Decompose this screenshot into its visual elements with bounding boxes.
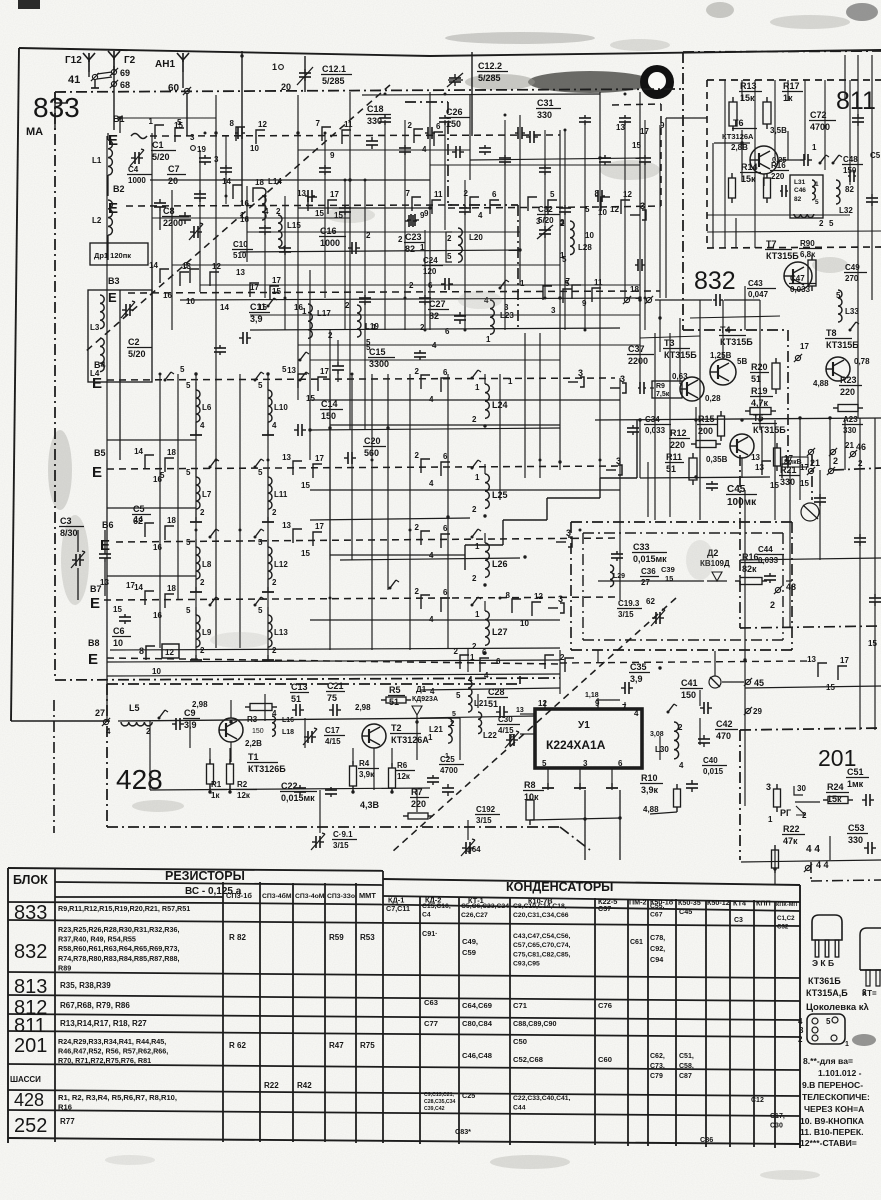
svg-text:L15: L15 <box>287 221 301 230</box>
svg-text:С35: С35 <box>630 662 647 672</box>
svg-text:15: 15 <box>301 549 310 558</box>
svg-text:R23,R25,R26,R28,R30,R31,R32,R3: R23,R25,R26,R28,R30,R31,R32,R36, <box>58 925 179 934</box>
svg-text:13: 13 <box>282 453 291 462</box>
svg-text:330: 330 <box>780 477 795 487</box>
svg-text:КТ4: КТ4 <box>733 898 746 907</box>
svg-text:С51: С51 <box>847 767 864 777</box>
svg-text:12: 12 <box>534 592 543 601</box>
svg-text:С7,С11: С7,С11 <box>386 904 410 913</box>
svg-text:С55,: С55, <box>650 903 664 910</box>
svg-text:3: 3 <box>583 759 588 768</box>
svg-text:С33: С33 <box>633 542 650 552</box>
svg-text:С3: С3 <box>60 516 72 526</box>
svg-text:3: 3 <box>566 528 571 538</box>
svg-text:R74,R78,R80,R83,R84,R85,R87,R8: R74,R78,R80,R83,R84,R85,R87,R88, <box>58 954 179 963</box>
svg-text:6: 6 <box>618 759 623 768</box>
svg-text:3,08: 3,08 <box>650 731 664 738</box>
svg-text:3: 3 <box>190 133 195 142</box>
svg-text:L6: L6 <box>202 403 212 412</box>
svg-text:2: 2 <box>200 508 205 517</box>
svg-text:3: 3 <box>766 782 771 792</box>
svg-text:К50-35: К50-35 <box>678 898 701 907</box>
svg-text:С53: С53 <box>848 823 865 833</box>
svg-text:R8: R8 <box>524 780 536 790</box>
svg-text:Т7: Т7 <box>766 239 777 249</box>
svg-text:0,35В: 0,35В <box>706 455 728 464</box>
svg-text:КТ3126А: КТ3126А <box>391 735 429 745</box>
svg-text:150: 150 <box>681 690 696 700</box>
svg-text:2: 2 <box>200 646 205 655</box>
svg-text:СП3-4бМ: СП3-4бМ <box>262 892 292 900</box>
svg-text:17: 17 <box>840 656 849 665</box>
svg-text:2200: 2200 <box>163 218 183 228</box>
svg-text:10: 10 <box>585 231 594 240</box>
svg-text:С47: С47 <box>790 274 805 283</box>
svg-text:17: 17 <box>784 454 793 463</box>
svg-text:С25: С25 <box>462 1091 475 1100</box>
svg-text:3: 3 <box>558 594 563 604</box>
svg-text:5: 5 <box>829 219 834 228</box>
svg-text:В8: В8 <box>88 638 100 648</box>
svg-text:1: 1 <box>475 473 480 482</box>
svg-text:С39: С39 <box>661 565 675 574</box>
svg-text:2,2В: 2,2В <box>245 739 262 748</box>
svg-text:11. В10-ПЕРЕК.: 11. В10-ПЕРЕК. <box>800 1127 864 1137</box>
svg-text:R20: R20 <box>751 362 768 372</box>
svg-text:С46: С46 <box>794 187 806 194</box>
svg-text:10: 10 <box>113 638 123 648</box>
svg-text:1: 1 <box>508 377 513 386</box>
svg-text:811: 811 <box>14 1015 46 1037</box>
svg-text:С32: С32 <box>777 924 789 931</box>
svg-text:220: 220 <box>840 387 855 397</box>
svg-text:8: 8 <box>139 646 144 656</box>
svg-text:R70, R71,R72,R75,R76, R81: R70, R71,R72,R75,R76, R81 <box>58 1056 151 1065</box>
svg-text:С26: С26 <box>446 107 463 117</box>
svg-text:R4: R4 <box>359 759 370 768</box>
svg-text:С12.2: С12.2 <box>478 61 502 71</box>
svg-text:R89: R89 <box>58 963 71 972</box>
svg-text:2: 2 <box>798 1035 803 1044</box>
svg-text:Т8: Т8 <box>826 328 837 338</box>
svg-text:20: 20 <box>281 82 291 92</box>
svg-text:252: 252 <box>14 1115 47 1137</box>
svg-text:19: 19 <box>197 145 206 154</box>
svg-text:R17: R17 <box>783 81 800 91</box>
svg-text:Т2: Т2 <box>391 723 402 733</box>
svg-text:48: 48 <box>786 582 796 592</box>
svg-text:С15: С15 <box>369 347 386 357</box>
svg-text:14: 14 <box>149 261 158 270</box>
svg-text:9: 9 <box>660 121 665 130</box>
svg-text:L21: L21 <box>429 725 443 734</box>
svg-text:1,25В: 1,25В <box>710 351 732 360</box>
svg-text:С17: С17 <box>325 726 340 735</box>
svg-text:R22: R22 <box>783 824 800 834</box>
svg-text:6: 6 <box>436 122 441 131</box>
svg-text:С72: С72 <box>810 110 827 120</box>
svg-text:5: 5 <box>542 759 547 768</box>
svg-text:6: 6 <box>482 648 487 657</box>
svg-text:С52,С68: С52,С68 <box>513 1055 543 1064</box>
svg-text:12: 12 <box>623 190 632 199</box>
svg-text:330: 330 <box>848 835 863 845</box>
svg-text:201: 201 <box>14 1035 47 1057</box>
svg-text:С10: С10 <box>233 240 248 249</box>
svg-text:R37,R40, R49, R54,: R37,R40, R49, R54,R55 <box>58 935 136 944</box>
svg-text:С19.3: С19.3 <box>618 599 640 608</box>
svg-text:КТ3126А: КТ3126А <box>722 132 754 141</box>
svg-text:R22: R22 <box>264 1081 279 1090</box>
svg-text:18: 18 <box>255 178 264 187</box>
svg-text:С11: С11 <box>250 302 266 312</box>
svg-text:2200: 2200 <box>628 356 648 366</box>
svg-text:L31: L31 <box>794 179 806 186</box>
svg-text:5/285: 5/285 <box>322 76 345 86</box>
svg-text:R11: R11 <box>666 452 682 462</box>
svg-text:1: 1 <box>420 243 425 252</box>
svg-text:4: 4 <box>798 1017 803 1026</box>
svg-text:L16: L16 <box>282 717 294 724</box>
svg-text:R12: R12 <box>670 428 687 438</box>
svg-text:0,033: 0,033 <box>758 556 779 565</box>
svg-text:С76: С76 <box>598 1001 612 1010</box>
svg-text:2: 2 <box>447 234 452 243</box>
svg-text:С87: С87 <box>679 1073 692 1080</box>
svg-text:4: 4 <box>634 709 639 718</box>
svg-text:С64,С69: С64,С69 <box>462 1001 492 1010</box>
svg-text:3: 3 <box>578 368 583 378</box>
svg-text:R16: R16 <box>771 161 786 170</box>
svg-text:С49,: С49, <box>462 937 478 946</box>
svg-text:4: 4 <box>478 211 483 220</box>
svg-text:КТ315Б: КТ315Б <box>753 425 786 435</box>
svg-text:6: 6 <box>492 190 497 199</box>
svg-text:3: 3 <box>616 456 621 466</box>
svg-text:С26,С27: С26,С27 <box>461 912 488 919</box>
svg-text:3/15: 3/15 <box>618 610 634 619</box>
svg-text:12: 12 <box>258 120 267 129</box>
svg-text:Г2: Г2 <box>124 55 136 66</box>
svg-text:2,98: 2,98 <box>192 700 208 709</box>
svg-text:С8,С10,С14,С18,: С8,С10,С14,С18, <box>513 903 567 910</box>
svg-text:150: 150 <box>321 411 336 421</box>
svg-text:2: 2 <box>472 415 477 424</box>
svg-text:1к: 1к <box>211 791 220 800</box>
svg-text:Т4: Т4 <box>720 325 731 335</box>
svg-text:5: 5 <box>258 381 263 390</box>
svg-text:7: 7 <box>406 189 411 198</box>
svg-text:R42: R42 <box>297 1081 312 1090</box>
svg-text:1: 1 <box>272 62 277 72</box>
svg-text:47к: 47к <box>783 836 798 846</box>
svg-text:3: 3 <box>551 306 556 315</box>
svg-text:R24,R29,R33,R34,R41, R44,R45,: R24,R29,R33,R34,R41, R44,R45, <box>58 1037 166 1046</box>
svg-text:5: 5 <box>186 606 191 615</box>
svg-text:В6: В6 <box>102 520 114 530</box>
svg-text:С45: С45 <box>679 907 692 916</box>
svg-text:С7: С7 <box>168 164 180 174</box>
svg-text:L11: L11 <box>274 490 288 499</box>
svg-text:5: 5 <box>258 468 263 477</box>
svg-text:С12: С12 <box>751 1097 764 1104</box>
svg-text:1.101.012 -: 1.101.012 - <box>818 1068 862 1078</box>
svg-text:69: 69 <box>120 68 130 78</box>
svg-text:16: 16 <box>240 199 249 208</box>
svg-text:12к: 12к <box>397 772 411 781</box>
svg-text:0,047: 0,047 <box>748 290 769 299</box>
svg-text:КТ361Б: КТ361Б <box>808 976 841 986</box>
svg-text:4/15: 4/15 <box>498 726 514 735</box>
svg-text:L10: L10 <box>274 403 288 412</box>
svg-text:С4: С4 <box>422 912 431 919</box>
svg-text:С20,С31,С34,С66: С20,С31,С34,С66 <box>513 912 569 919</box>
svg-text:2: 2 <box>345 301 350 310</box>
svg-text:В2: В2 <box>113 184 125 194</box>
svg-text:5/285: 5/285 <box>478 73 501 83</box>
svg-text:С8: С8 <box>163 206 175 216</box>
svg-text:R46,R47,R52, R56, R57,R62,R66,: R46,R47,R52, R56, R57,R62,R66, <box>58 1047 168 1056</box>
svg-text:2: 2 <box>272 646 277 655</box>
svg-text:С28,С35,С34: С28,С35,С34 <box>424 1099 456 1105</box>
svg-text:С15,С16,: С15,С16, <box>422 903 451 910</box>
svg-text:4,88: 4,88 <box>813 379 829 388</box>
svg-text:L27: L27 <box>492 627 508 637</box>
svg-text:С83*: С83* <box>455 1127 471 1136</box>
svg-text:150: 150 <box>252 728 264 735</box>
svg-text:1: 1 <box>475 610 480 619</box>
svg-text:13: 13 <box>616 123 625 132</box>
svg-text:10. В9-КНОПКА: 10. В9-КНОПКА <box>800 1116 864 1126</box>
svg-text:С58,: С58, <box>679 1063 694 1070</box>
svg-text:R90: R90 <box>800 239 815 248</box>
svg-text:ШАССИ: ШАССИ <box>10 1075 41 1084</box>
svg-text:5: 5 <box>186 538 191 547</box>
svg-text:14: 14 <box>220 303 229 312</box>
svg-text:2: 2 <box>454 647 459 656</box>
svg-text:КТ315Б: КТ315Б <box>766 251 799 261</box>
svg-text:46: 46 <box>856 442 866 452</box>
svg-text:С59: С59 <box>462 948 476 957</box>
svg-text:КТ315Б: КТ315Б <box>826 340 859 350</box>
svg-text:R9,R11,R12,R15,R19,R20,R21, R5: R9,R11,R12,R15,R19,R20,R21, R57,R51 <box>58 904 190 913</box>
svg-text:2: 2 <box>472 642 477 651</box>
svg-text:С9,С13,С21,: С9,С13,С21, <box>424 1092 455 1098</box>
svg-text:L7: L7 <box>202 490 212 499</box>
svg-text:1: 1 <box>445 753 449 760</box>
svg-text:5: 5 <box>456 691 461 700</box>
svg-text:С13: С13 <box>291 682 308 692</box>
svg-text:С18: С18 <box>367 104 384 114</box>
svg-text:КПК-МП: КПК-МП <box>776 902 797 908</box>
svg-text:С43: С43 <box>748 279 763 288</box>
svg-text:833: 833 <box>14 902 47 924</box>
svg-text:С80,С84: С80,С84 <box>462 1019 493 1028</box>
svg-text:Т6: Т6 <box>733 118 744 128</box>
svg-text:6: 6 <box>496 657 501 666</box>
svg-text:17: 17 <box>320 367 329 376</box>
svg-text:Е: Е <box>108 290 117 305</box>
svg-text:5: 5 <box>815 199 819 206</box>
svg-text:L29: L29 <box>613 573 625 580</box>
svg-text:С1: С1 <box>152 140 164 150</box>
svg-text:4 4: 4 4 <box>806 844 820 855</box>
svg-text:2: 2 <box>464 189 469 198</box>
svg-text:4,88: 4,88 <box>643 805 659 814</box>
svg-text:51: 51 <box>488 699 498 709</box>
svg-text:14: 14 <box>222 177 231 186</box>
svg-text:13: 13 <box>282 521 291 530</box>
svg-text:5: 5 <box>186 468 191 477</box>
svg-text:С48: С48 <box>843 155 858 164</box>
svg-text:29: 29 <box>753 707 762 716</box>
svg-text:С45: С45 <box>727 484 746 495</box>
svg-text:С79: С79 <box>650 1073 663 1080</box>
svg-text:1: 1 <box>372 323 377 332</box>
svg-text:R 82: R 82 <box>229 933 246 942</box>
svg-text:2: 2 <box>472 574 477 583</box>
svg-text:6,8к: 6,8к <box>800 250 816 259</box>
svg-text:13: 13 <box>755 463 764 472</box>
svg-text:С192: С192 <box>476 805 496 814</box>
svg-text:0,015мк: 0,015мк <box>633 554 667 564</box>
svg-text:2: 2 <box>858 459 863 468</box>
svg-text:R1, R2, R3,R4, R5,R6,R7, R8,R1: R1, R2, R3,R4, R5,R6,R7, R8,R10, <box>58 1093 177 1102</box>
svg-text:L3: L3 <box>90 323 100 332</box>
svg-text:КТ315Б: КТ315Б <box>720 337 753 347</box>
svg-text:813: 813 <box>14 976 47 998</box>
svg-text:Э К Б: Э К Б <box>812 958 834 968</box>
svg-text:75: 75 <box>327 693 337 703</box>
svg-text:С22,С33,С40,С41,: С22,С33,С40,С41, <box>513 1095 571 1102</box>
svg-text:2: 2 <box>560 653 565 662</box>
svg-text:R35, R38,R39: R35, R38,R39 <box>60 981 111 990</box>
svg-text:С21: С21 <box>327 681 344 691</box>
svg-text:R9: R9 <box>656 383 665 390</box>
svg-text:С17,: С17, <box>770 1113 785 1120</box>
svg-text:К50-12: К50-12 <box>707 898 730 907</box>
svg-text:1мк: 1мк <box>847 779 864 789</box>
svg-text:4700: 4700 <box>440 766 458 775</box>
svg-text:КТ=: КТ= <box>862 989 877 998</box>
svg-text:10: 10 <box>250 144 259 153</box>
svg-text:5: 5 <box>186 381 191 390</box>
svg-text:1: 1 <box>520 279 525 288</box>
svg-text:18: 18 <box>167 516 176 525</box>
svg-text:18: 18 <box>167 584 176 593</box>
svg-text:470: 470 <box>716 731 731 741</box>
svg-text:10: 10 <box>186 297 195 306</box>
svg-text:1000: 1000 <box>320 238 340 248</box>
svg-text:2: 2 <box>770 600 775 610</box>
svg-text:51: 51 <box>666 464 676 474</box>
svg-text:2: 2 <box>408 121 413 130</box>
svg-text:5: 5 <box>160 471 165 480</box>
svg-text:15: 15 <box>665 574 673 583</box>
svg-text:15к: 15к <box>741 174 756 184</box>
svg-text:С41: С41 <box>681 678 698 688</box>
svg-text:9: 9 <box>330 151 335 160</box>
svg-text:L1: L1 <box>92 156 102 165</box>
svg-text:С63: С63 <box>424 998 438 1007</box>
svg-text:R10: R10 <box>641 773 658 783</box>
svg-text:15: 15 <box>113 605 122 614</box>
svg-text:Др1 120пк: Др1 120пк <box>94 251 131 260</box>
svg-text:330: 330 <box>537 110 552 120</box>
svg-text:10: 10 <box>152 667 161 676</box>
svg-text:С30: С30 <box>770 1123 783 1130</box>
svg-text:3,9к: 3,9к <box>359 770 375 779</box>
svg-text:L18: L18 <box>282 729 294 736</box>
svg-text:832: 832 <box>694 267 736 295</box>
svg-text:832: 832 <box>14 941 47 963</box>
svg-text:С23: С23 <box>405 232 422 242</box>
svg-text:С78,: С78, <box>650 933 665 942</box>
svg-text:РГ: РГ <box>780 808 791 818</box>
svg-text:16: 16 <box>153 611 162 620</box>
svg-text:5: 5 <box>366 343 371 352</box>
svg-text:L9: L9 <box>202 628 212 637</box>
svg-text:9: 9 <box>424 209 429 218</box>
svg-text:С40: С40 <box>703 756 718 765</box>
svg-text:ПМ-2: ПМ-2 <box>629 897 647 906</box>
svg-text:С2: С2 <box>128 337 140 347</box>
svg-text:3: 3 <box>214 155 219 164</box>
svg-text:82к: 82к <box>742 564 757 574</box>
svg-text:КТ315Б: КТ315Б <box>664 350 697 360</box>
svg-text:С16: С16 <box>320 226 337 236</box>
svg-text:R47: R47 <box>329 1041 344 1050</box>
svg-text:L4: L4 <box>90 369 100 378</box>
svg-text:21: 21 <box>810 458 820 468</box>
svg-text:5: 5 <box>258 606 263 615</box>
svg-text:1,18: 1,18 <box>585 692 599 699</box>
svg-text:6: 6 <box>443 368 448 377</box>
svg-text:4: 4 <box>679 761 684 770</box>
svg-text:16: 16 <box>153 543 162 552</box>
svg-text:5: 5 <box>180 365 185 374</box>
svg-text:17: 17 <box>800 463 809 472</box>
svg-text:АН1: АН1 <box>155 59 175 70</box>
svg-text:6: 6 <box>443 524 448 533</box>
svg-text:У1: У1 <box>578 720 590 731</box>
svg-text:21: 21 <box>845 441 854 450</box>
svg-text:КПП: КПП <box>756 899 771 908</box>
svg-text:L12: L12 <box>274 560 288 569</box>
svg-text:R77: R77 <box>60 1117 75 1126</box>
svg-text:2: 2 <box>833 456 838 466</box>
svg-text:2: 2 <box>415 587 420 596</box>
svg-text:13: 13 <box>287 366 296 375</box>
svg-text:16: 16 <box>294 303 303 312</box>
svg-text:5: 5 <box>550 190 555 199</box>
svg-text:2: 2 <box>272 578 277 587</box>
svg-text:4,3В: 4,3В <box>360 800 380 810</box>
svg-text:L8: L8 <box>202 560 212 569</box>
svg-text:17: 17 <box>272 276 281 285</box>
svg-text:1: 1 <box>428 733 433 742</box>
svg-text:62: 62 <box>646 597 655 606</box>
svg-text:С43,С47,С54,С56,: С43,С47,С54,С56, <box>513 933 571 940</box>
svg-text:11: 11 <box>594 278 603 287</box>
svg-text:16: 16 <box>163 291 172 300</box>
svg-text:220: 220 <box>670 440 685 450</box>
svg-text:5: 5 <box>826 1017 831 1026</box>
svg-text:2: 2 <box>200 578 205 587</box>
svg-text:КТ315А,Б: КТ315А,Б <box>806 988 848 998</box>
svg-text:17: 17 <box>800 342 809 351</box>
svg-text:С91·: С91· <box>422 929 438 938</box>
